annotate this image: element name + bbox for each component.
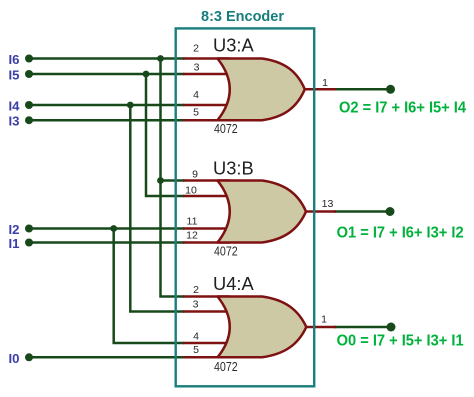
wire I3 to U3:A pin 5 — [29, 119, 185, 122]
U3:A pin 5 stub — [183, 119, 230, 122]
svg-text:13: 13 — [322, 198, 334, 210]
svg-text:O0 = I7 + I5+ I3+ I1: O0 = I7 + I5+ I3+ I1 — [337, 333, 464, 350]
svg-text:I5: I5 — [9, 68, 20, 83]
junction on I2 row — [110, 225, 117, 232]
U4:A pin 2 stub — [183, 295, 230, 298]
node O0 terminal — [387, 323, 396, 332]
svg-text:3: 3 — [193, 298, 199, 310]
svg-text:1: 1 — [322, 77, 328, 89]
wire vertical trunk from I6 to U4:A pin 2 — [161, 59, 185, 297]
U3:B output pin 13 stub — [304, 210, 336, 213]
svg-text:I2: I2 — [9, 222, 20, 237]
svg-text:1: 1 — [321, 313, 327, 325]
svg-text:I0: I0 — [9, 351, 20, 366]
svg-text:2: 2 — [193, 42, 199, 54]
wire I6 to U3:A pin 2 — [29, 57, 185, 60]
U3:B pin 11 stub — [183, 227, 227, 230]
svg-text:4: 4 — [193, 330, 199, 342]
U4:A pin 4 stub — [183, 342, 227, 345]
node I3 terminal — [25, 116, 33, 124]
node I4 terminal — [25, 101, 33, 109]
U3:A pin 4 stub — [183, 104, 227, 107]
junction at U3:B pin 9 — [157, 177, 164, 184]
node I0 terminal — [25, 353, 33, 361]
node I6 terminal — [25, 55, 33, 63]
wire I5 to U3:A pin 3 — [29, 73, 185, 76]
wire output O2 — [334, 88, 391, 91]
U3:A pin 3 stub — [183, 73, 227, 76]
node I5 terminal — [25, 70, 33, 78]
U3:A pin 2 stub — [183, 57, 230, 60]
svg-text:8:3 Encoder: 8:3 Encoder — [201, 9, 284, 25]
U4:A output pin 1 stub — [304, 326, 336, 329]
svg-text:U3:A: U3:A — [213, 34, 254, 55]
op-amp U3:B OR gate body — [218, 181, 307, 243]
svg-text:11: 11 — [187, 215, 198, 227]
encoder boundary box — [176, 28, 315, 386]
U3:B pin 10 stub — [183, 195, 227, 198]
svg-text:U4:A: U4:A — [213, 273, 254, 294]
wire output O0 — [334, 326, 391, 329]
wire vertical trunk from I5 to U3:B pin 10 — [146, 74, 185, 196]
svg-text:4072: 4072 — [214, 243, 238, 258]
wire I0 to U4:A pin 5 — [29, 356, 185, 359]
svg-text:U3:B: U3:B — [213, 158, 254, 179]
U3:B pin 12 stub — [183, 241, 230, 244]
wire vertical trunk from I2 to U4:A pin 4 — [114, 229, 185, 344]
U4:A pin 3 stub — [183, 310, 227, 313]
svg-text:O1 = I7 + I6+ I3+ I2: O1 = I7 + I6+ I3+ I2 — [337, 224, 464, 241]
U3:A output pin 1 stub — [303, 88, 336, 91]
node O1 terminal — [386, 207, 395, 216]
junction on I4 row — [127, 102, 134, 109]
svg-text:4072: 4072 — [214, 121, 238, 136]
svg-text:12: 12 — [186, 229, 198, 241]
wire I1 to U3:B pin 12 — [29, 241, 185, 244]
wire stub U3:B pin 9 — [161, 179, 185, 182]
op-amp U3:A OR gate body — [218, 59, 305, 121]
junction on I5 row — [143, 71, 150, 78]
svg-text:3: 3 — [194, 61, 200, 73]
svg-text:4072: 4072 — [214, 359, 238, 374]
svg-text:2: 2 — [193, 284, 199, 296]
svg-text:9: 9 — [192, 168, 198, 180]
node I1 terminal — [25, 239, 33, 247]
svg-text:10: 10 — [185, 184, 197, 196]
U4:A pin 5 stub — [183, 356, 230, 359]
op-amp U4:A OR gate body — [218, 297, 307, 358]
wire vertical trunk from I4 to U4:A pin 3 — [130, 105, 184, 312]
svg-text:5: 5 — [193, 344, 199, 356]
wire output O1 — [334, 210, 390, 213]
svg-text:5: 5 — [193, 106, 199, 118]
node I2 terminal — [25, 225, 33, 233]
svg-text:O2 = I7 + I6+ I5+ I4: O2 = I7 + I6+ I5+ I4 — [339, 100, 466, 117]
junction on I6 row — [157, 55, 164, 62]
svg-text:I3: I3 — [9, 114, 20, 129]
svg-text:4: 4 — [193, 89, 199, 101]
wire I4 to U3:A pin 4 — [29, 104, 185, 107]
node O2 terminal — [386, 85, 395, 94]
svg-text:I4: I4 — [9, 99, 21, 114]
svg-text:I6: I6 — [9, 52, 20, 67]
svg-text:I1: I1 — [9, 236, 20, 251]
wire I2 to U3:B pin 11 — [29, 227, 185, 230]
U3:B pin 9 stub — [183, 179, 230, 182]
